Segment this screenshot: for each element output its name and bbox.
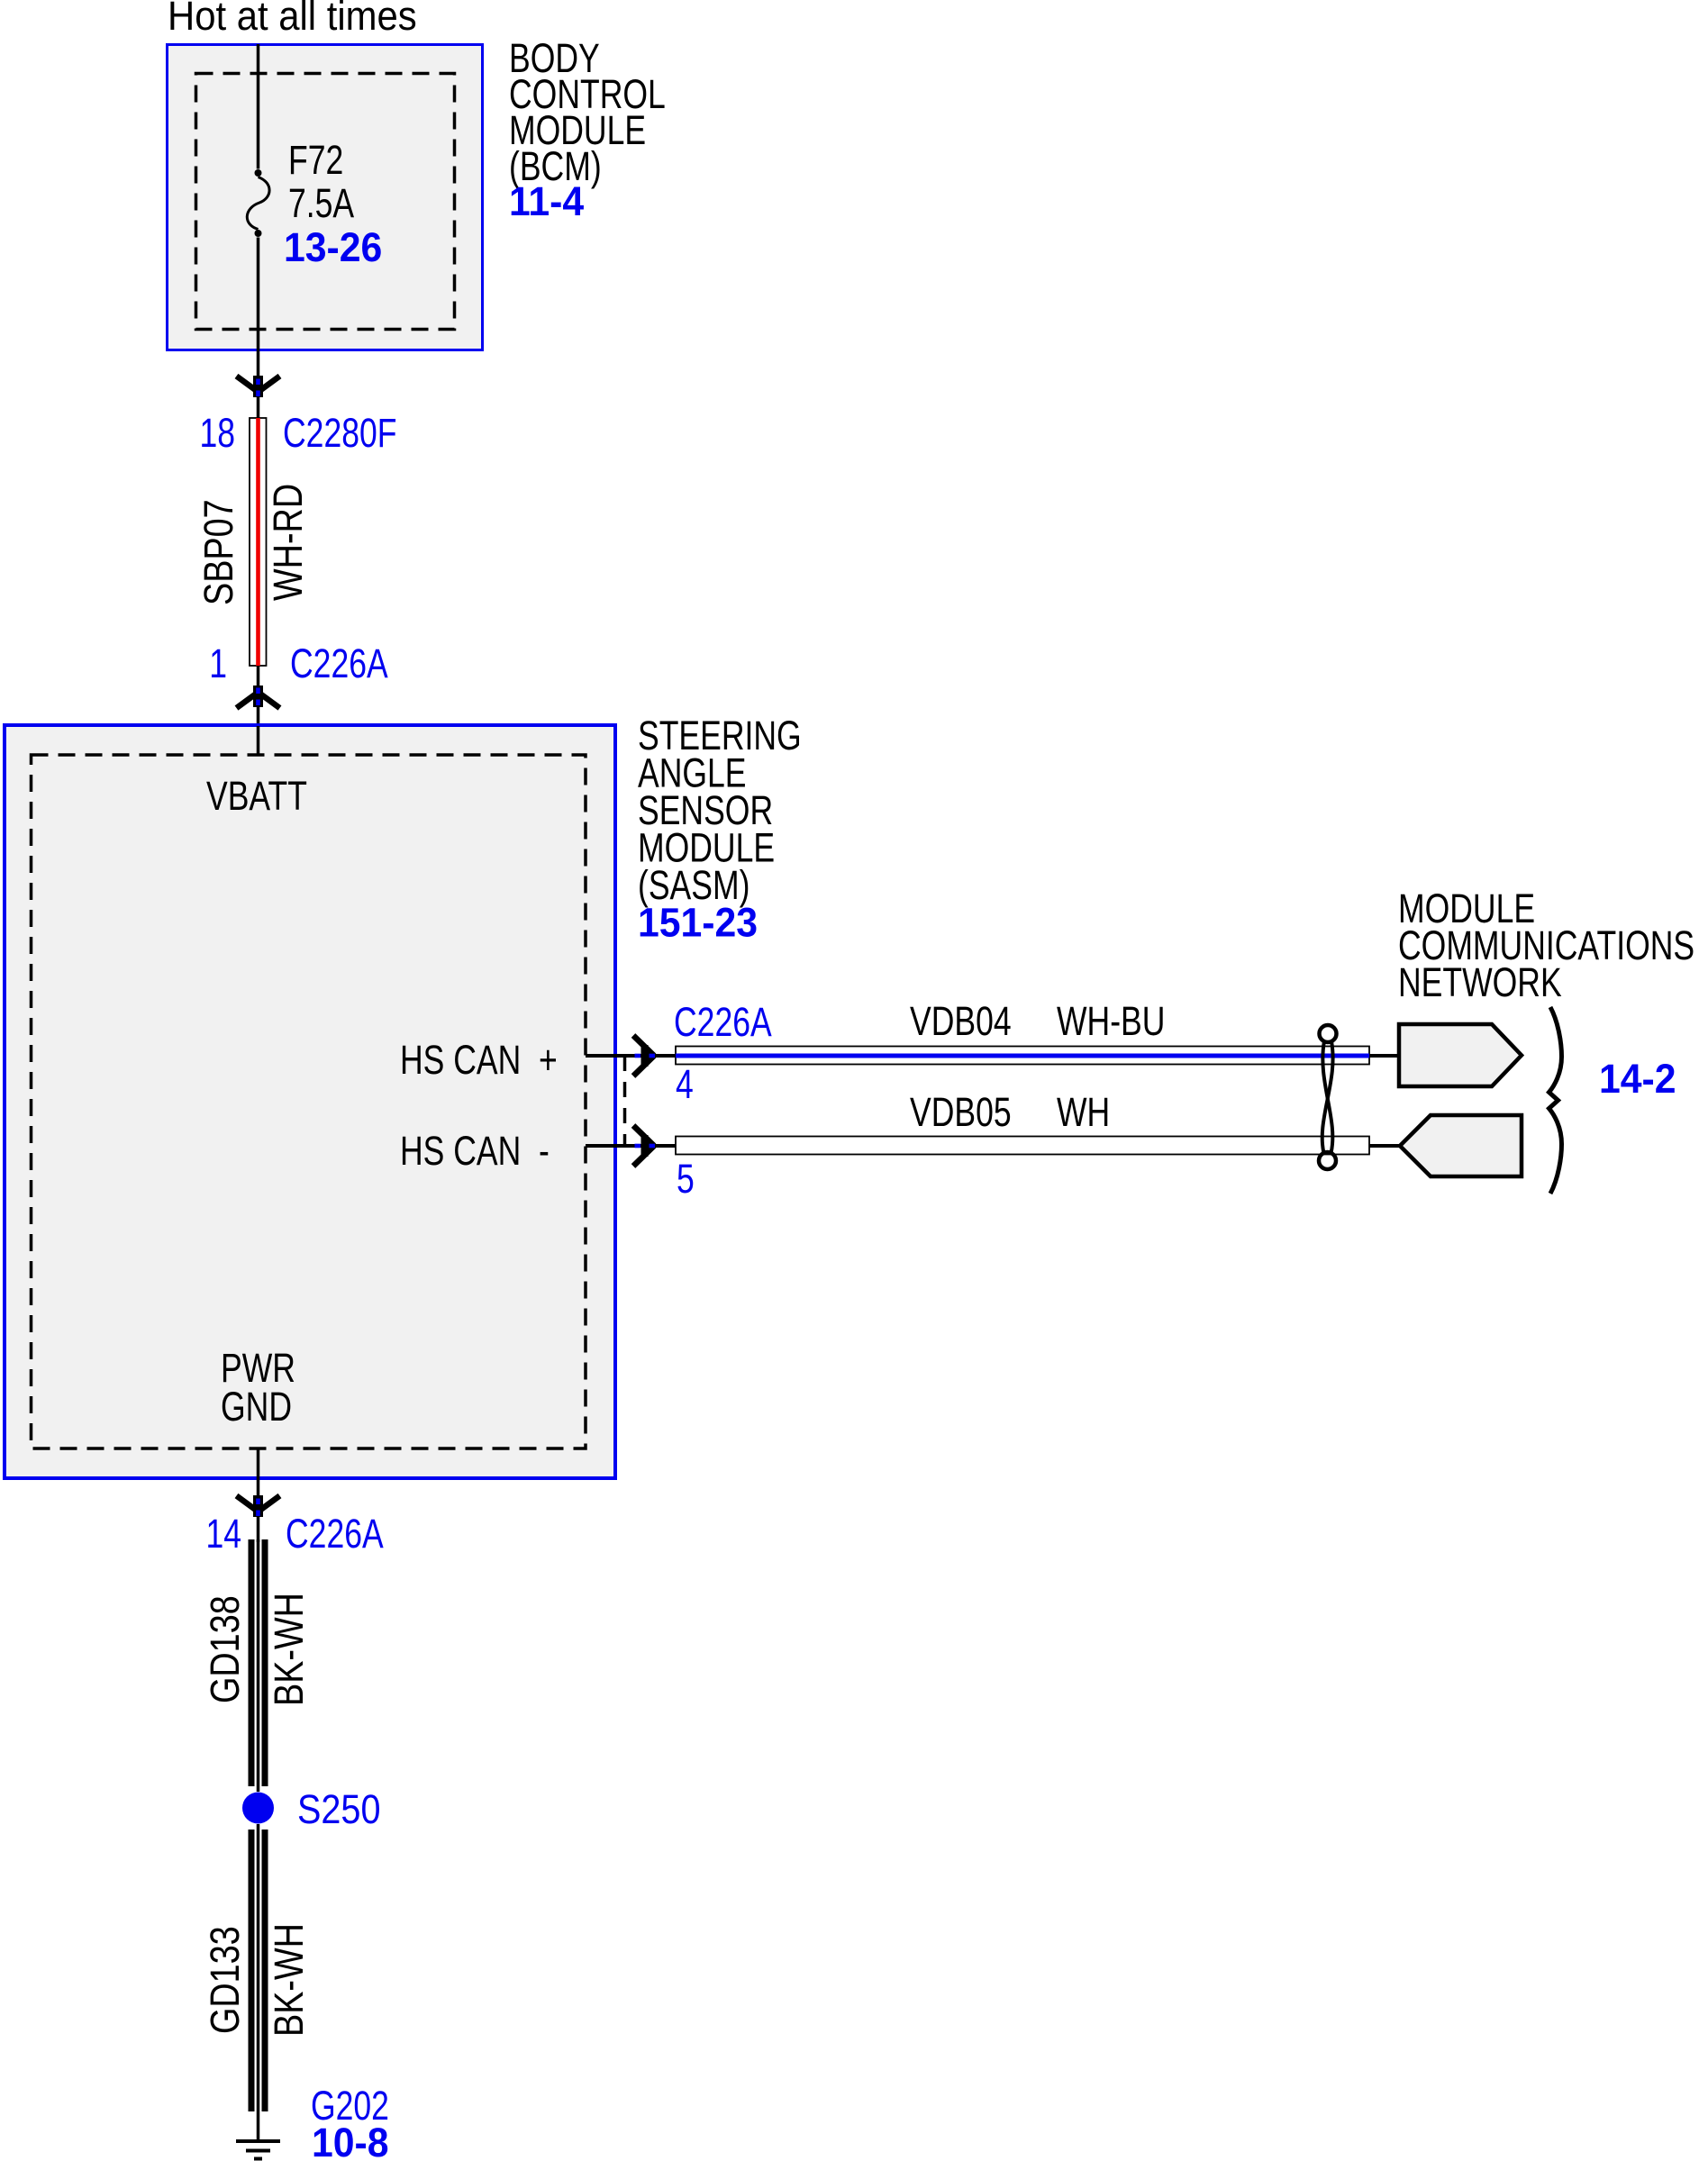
wire fuse to connector C2280F — [257, 238, 260, 419]
SASM inner dashed box — [32, 755, 586, 1448]
svg-text:Hot at all times: Hot at all times — [168, 0, 417, 39]
label pin 18 — [199, 410, 235, 456]
wire stub below pin 14 — [257, 1517, 260, 1542]
wire SBP07 WH-RD — [250, 418, 267, 666]
pin label VBATT — [206, 773, 307, 819]
label C226A pin14 — [286, 1511, 384, 1557]
wire to ground G202 — [257, 2111, 260, 2141]
ground G202 symbol — [236, 2141, 280, 2159]
svg-text:HS CAN -: HS CAN - — [400, 1128, 550, 1174]
wire label VDB04 — [910, 998, 1012, 1044]
off-page connector stub (top) — [1369, 1054, 1399, 1058]
power label "Hot at all times" — [168, 0, 417, 39]
wire color BK-WH lower — [266, 1923, 312, 2037]
svg-text:SBP07: SBP07 — [195, 499, 241, 605]
wire color WH-BU — [1057, 998, 1165, 1044]
BCM inner dashed box — [196, 74, 455, 330]
brace — [1549, 1007, 1562, 1194]
svg-text:GD138: GD138 — [202, 1595, 248, 1703]
splice S250 — [242, 1793, 274, 1824]
BCM label — [509, 35, 666, 189]
label S250 — [297, 1787, 380, 1832]
off-page connector to network (top) — [1399, 1024, 1522, 1086]
wire band to connector C226A pin 1 — [257, 666, 260, 724]
wire label VDB05 — [910, 1089, 1012, 1135]
svg-text:1: 1 — [209, 640, 227, 686]
fuse value label F72 7.5A — [288, 137, 354, 226]
wire VDB04 WH-BU — [676, 1047, 1369, 1065]
fuse page ref 13-26 — [284, 225, 382, 270]
svg-text:GND: GND — [221, 1384, 292, 1430]
svg-text:C226A: C226A — [286, 1511, 384, 1557]
off-page connector from network (bottom) — [1400, 1115, 1522, 1176]
svg-text:BK-WH: BK-WH — [266, 1923, 312, 2037]
svg-text:VDB04: VDB04 — [910, 998, 1012, 1044]
fuse F72 — [247, 169, 269, 237]
connector C226A pin 14 symbol — [237, 1495, 280, 1517]
svg-text:GD133: GD133 — [202, 1926, 248, 2034]
wire PWR GND to connector C226A pin 14 — [257, 1448, 260, 1495]
pin label PWR GND — [221, 1345, 295, 1430]
network page ref 14-2 — [1599, 1057, 1676, 1102]
label pin 1 — [209, 640, 227, 686]
ground page ref 10-8 — [312, 2120, 389, 2161]
svg-text:WH-BU: WH-BU — [1057, 998, 1165, 1044]
label pin 5 — [677, 1156, 695, 1202]
connector C226A pin 4 symbol — [633, 1036, 655, 1076]
svg-text:7.5A: 7.5A — [288, 180, 354, 226]
BCM module box — [168, 45, 483, 350]
label G202 — [311, 2083, 389, 2129]
off-page connector stub (bottom) — [1369, 1144, 1402, 1148]
pin label HS CAN - — [400, 1128, 550, 1174]
svg-text:14: 14 — [205, 1511, 241, 1557]
wire GD133 BK-WH — [249, 1824, 268, 2111]
svg-text:18: 18 — [199, 410, 235, 456]
svg-text:C226A: C226A — [674, 999, 772, 1045]
wire stub HS CAN - — [586, 1144, 676, 1148]
label C226A pin4 — [674, 999, 772, 1045]
svg-text:151-23: 151-23 — [638, 901, 758, 946]
svg-text:VDB05: VDB05 — [910, 1089, 1012, 1135]
svg-text:BK-WH: BK-WH — [266, 1593, 312, 1706]
SASM page ref 151-23 — [638, 901, 758, 946]
wire color label WH-RD — [265, 484, 311, 601]
wire stub HS CAN + — [586, 1054, 676, 1058]
wire label GD133 — [202, 1926, 248, 2034]
wire into VBATT pin — [257, 726, 260, 755]
SASM module box — [5, 725, 615, 1478]
svg-text:C2280F: C2280F — [283, 410, 396, 456]
svg-text:HS CAN +: HS CAN + — [400, 1037, 558, 1083]
svg-text:S250: S250 — [297, 1787, 380, 1832]
wire color WH — [1057, 1089, 1110, 1135]
label C226A pin1 — [290, 640, 388, 686]
label pin 4 — [676, 1061, 694, 1107]
connector dashed link between pin 4 and pin 5 — [623, 1056, 627, 1146]
BCM page ref 11-4 — [509, 179, 585, 224]
twisted pair symbol — [1319, 1025, 1337, 1169]
svg-text:WH-RD: WH-RD — [265, 484, 311, 601]
connector C226A pin 5 symbol — [633, 1126, 655, 1167]
svg-text:10-8: 10-8 — [312, 2120, 389, 2161]
svg-text:4: 4 — [676, 1061, 694, 1107]
wire label GD138 — [202, 1595, 248, 1703]
wire BCM feed to fuse F72 — [257, 44, 260, 169]
SASM label — [638, 713, 802, 908]
wire GD138 BK-WH — [249, 1539, 268, 1792]
label C2280F — [283, 410, 396, 456]
wire color BK-WH upper — [266, 1593, 312, 1706]
svg-text:F72: F72 — [288, 137, 343, 183]
connector C2280F pin 18 symbol — [237, 376, 280, 397]
svg-text:NETWORK: NETWORK — [1398, 959, 1562, 1005]
connector C226A pin 1 symbol — [237, 686, 280, 708]
svg-text:11-4: 11-4 — [509, 179, 585, 224]
wire VDB05 WH — [676, 1137, 1369, 1155]
network label MODULE COMMUNICATIONS NETWORK — [1398, 885, 1694, 1005]
label pin 14 — [205, 1511, 241, 1557]
wire label SBP07 — [195, 499, 241, 605]
pin label HS CAN + — [400, 1037, 558, 1083]
svg-text:VBATT: VBATT — [206, 773, 307, 819]
svg-text:14-2: 14-2 — [1599, 1057, 1676, 1102]
svg-text:13-26: 13-26 — [284, 225, 382, 270]
svg-text:WH: WH — [1057, 1089, 1110, 1135]
svg-text:5: 5 — [677, 1156, 695, 1202]
svg-text:C226A: C226A — [290, 640, 388, 686]
